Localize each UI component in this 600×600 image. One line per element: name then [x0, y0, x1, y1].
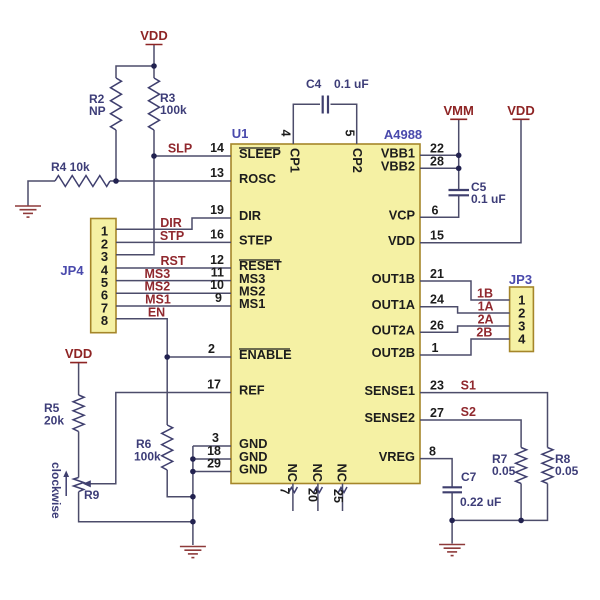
svg-text:NP: NP [89, 104, 106, 118]
svg-text:100k: 100k [134, 450, 161, 464]
wire ground to R4 [28, 181, 55, 206]
pin name ENABLE [239, 347, 292, 362]
power VDD right [507, 103, 534, 119]
svg-text:VDD: VDD [388, 233, 415, 248]
wire VREG pin 8 to C7 [420, 459, 452, 487]
svg-text:24: 24 [430, 293, 444, 307]
svg-text:8: 8 [101, 313, 108, 328]
wire GND pin 3 [193, 445, 231, 447]
wire MS2 net JP4 pin6 to pin 10 [116, 292, 231, 294]
wire MS1 net JP4 pin7 to pin 9 [116, 305, 231, 307]
svg-text:ROSC: ROSC [239, 171, 276, 186]
wire OUT2B pin 1 to JP3 pin4 [420, 339, 510, 355]
svg-text:8: 8 [429, 445, 436, 459]
svg-text:OUT2A: OUT2A [372, 323, 415, 338]
wire DIR net JP4 pin1 to pin 19 [116, 218, 231, 229]
wire VMM down through VBB to C5 [458, 119, 460, 189]
NC slash 25 [338, 487, 347, 493]
value label R6 100k [134, 437, 161, 464]
svg-text:VBB2: VBB2 [381, 159, 415, 174]
svg-text:1B: 1B [477, 287, 493, 301]
JP3 pin numbers 1-4 [518, 293, 526, 347]
svg-text:JP3: JP3 [509, 272, 532, 287]
wire R5 bottom to pot R9 [78, 432, 80, 478]
pin stub NC 25 [342, 484, 344, 512]
wire SENSE2 pin 27 to R7 [420, 420, 521, 448]
svg-text:21: 21 [430, 267, 444, 281]
svg-text:1A: 1A [478, 300, 494, 314]
capacitor C4 plates [322, 96, 324, 114]
svg-text:13: 13 [210, 166, 224, 180]
svg-text:27: 27 [430, 406, 444, 420]
wire R3 bottom to SLEEP row [153, 130, 155, 156]
IC U1 body [231, 144, 420, 484]
wire R8 bottom [452, 484, 547, 521]
node R6/gnd rail [190, 494, 196, 500]
wire ground rail vertical [192, 446, 194, 545]
JP4 pin numbers 1-8 [101, 224, 109, 329]
resistor R7 [516, 448, 527, 484]
svg-text:6: 6 [432, 203, 439, 217]
svg-text:S2: S2 [461, 405, 476, 419]
wire SLP vertical to JP4 pin 3 [116, 156, 154, 255]
node SLP [151, 153, 157, 159]
NC slash 7 [288, 487, 297, 493]
wire R7 bottom [520, 484, 522, 521]
NC slash 20 [313, 487, 322, 493]
svg-text:4: 4 [518, 332, 526, 347]
value label R8 0.05 [555, 452, 579, 478]
ground bottom-right [439, 545, 465, 556]
pin name RESET [239, 258, 282, 273]
svg-text:SENSE1: SENSE1 [364, 383, 415, 398]
svg-text:2: 2 [208, 342, 215, 356]
svg-text:CP1: CP1 [288, 148, 303, 173]
wire OUT2A pin 26 to JP3 pin3 [420, 326, 510, 332]
capacitor C5 plates [449, 189, 470, 191]
svg-text:C7: C7 [461, 470, 477, 484]
potentiometer R9 body [74, 478, 84, 492]
svg-text:VCP: VCP [389, 208, 416, 223]
svg-text:S1: S1 [461, 379, 476, 393]
svg-text:VDD: VDD [65, 346, 92, 361]
node VBB1 [456, 153, 462, 159]
node C7/gnd [449, 518, 455, 524]
svg-text:19: 19 [210, 203, 224, 217]
wire C5 bottom to VCP pin 6 [420, 196, 459, 218]
svg-text:EN: EN [148, 305, 165, 319]
value label R7 0.05 [492, 452, 516, 478]
power VMM [444, 103, 474, 119]
wire C4 to CP2 pin 5 [331, 104, 357, 144]
svg-text:4: 4 [279, 130, 293, 137]
wire OUT1A pin 24 to JP3 pin2 [420, 307, 510, 313]
wire R6 bottom to gnd rail [167, 470, 193, 497]
pin name SLEEP [239, 146, 281, 161]
node VDD/R2/R3 [151, 63, 157, 69]
connector JP3 body [510, 287, 534, 352]
svg-text:5: 5 [343, 130, 357, 137]
svg-text:R4 10k: R4 10k [51, 160, 90, 174]
svg-text:14: 14 [210, 141, 224, 155]
svg-text:2A: 2A [478, 313, 494, 327]
svg-text:NC: NC [285, 464, 300, 482]
value label R2 NP [89, 92, 106, 118]
wire CP1 pin 4 to C4 [293, 104, 320, 144]
svg-text:REF: REF [239, 383, 265, 398]
svg-text:RST: RST [161, 254, 186, 268]
svg-text:R9: R9 [84, 488, 100, 502]
svg-text:100k: 100k [160, 103, 187, 117]
svg-text:20: 20 [306, 488, 320, 502]
svg-text:SLP: SLP [168, 142, 192, 156]
svg-text:STEP: STEP [239, 233, 273, 248]
resistor R8 [542, 448, 553, 484]
svg-text:DIR: DIR [160, 216, 182, 230]
resistor R6 [162, 425, 173, 470]
svg-text:OUT2B: OUT2B [372, 345, 415, 360]
svg-text:JP4: JP4 [60, 263, 84, 278]
wire VBB2 pin 28 [420, 167, 459, 169]
wire SLEEP pin 14 [154, 155, 231, 157]
wire VDD left to R5 [78, 363, 80, 395]
svg-text:U1: U1 [232, 126, 249, 141]
svg-text:NC: NC [310, 464, 325, 482]
connector JP4 body [91, 219, 116, 333]
svg-text:NC: NC [335, 464, 350, 482]
wire C7 bottom to ground [451, 493, 453, 544]
svg-text:VREG: VREG [379, 449, 415, 464]
node R2/R4 [113, 178, 119, 184]
svg-text:OUT1A: OUT1A [372, 297, 415, 312]
potentiometer R9 wiper arrow [83, 480, 91, 487]
svg-text:OUT1B: OUT1B [372, 271, 415, 286]
svg-text:MS1: MS1 [239, 296, 265, 311]
value label C5 0.1 uF [471, 180, 506, 206]
value label R5 20k [44, 401, 64, 428]
svg-text:0.22 uF: 0.22 uF [460, 495, 501, 509]
svg-text:28: 28 [430, 154, 444, 168]
wire EN net JP4 pin8 down to ENABLE [116, 319, 167, 357]
wire ENABLE pin 2 [167, 356, 231, 358]
wire VBB1 pin 22 [420, 154, 459, 156]
node VBB2 [456, 166, 462, 172]
svg-text:15: 15 [430, 229, 444, 243]
svg-text:26: 26 [430, 318, 444, 332]
wire R4 to ROSC pin 13 [110, 180, 231, 182]
resistor R4 [55, 176, 110, 187]
wire OUT1B pin 21 to JP3 pin1 [420, 281, 510, 300]
svg-text:3: 3 [212, 431, 219, 445]
svg-text:CP2: CP2 [350, 148, 365, 173]
wire ENABLE junction down to R6 [166, 357, 168, 425]
wire VDD junction to R2 top [116, 66, 154, 78]
svg-text:20k: 20k [44, 414, 64, 428]
wire R2 bottom to ROSC row [115, 130, 117, 181]
svg-text:1: 1 [432, 341, 439, 355]
svg-text:16: 16 [210, 227, 224, 241]
svg-text:0.05: 0.05 [555, 464, 579, 478]
svg-text:clockwise: clockwise [49, 462, 63, 519]
ground left [15, 206, 41, 217]
svg-text:SENSE2: SENSE2 [364, 410, 415, 425]
wire REF pin 17 to pot wiper [90, 393, 231, 484]
resistor R3 [149, 78, 160, 130]
wire R9 bottom to gnd rail [79, 492, 193, 522]
node EN/ENABLE [164, 354, 170, 360]
node R7 bottom [518, 518, 524, 524]
svg-text:DIR: DIR [239, 208, 261, 223]
svg-text:2B: 2B [476, 326, 492, 340]
svg-text:GND: GND [239, 462, 267, 477]
value label C7 0.22 uF [460, 470, 501, 509]
svg-text:22: 22 [430, 141, 444, 155]
svg-text:C4: C4 [306, 77, 322, 91]
svg-text:0.05: 0.05 [492, 464, 516, 478]
svg-text:0.1 uF: 0.1 uF [334, 77, 369, 91]
svg-text:29: 29 [207, 457, 221, 471]
svg-text:VDD: VDD [140, 28, 167, 43]
wire MS3 net JP4 pin5 to pin 11 [116, 280, 231, 282]
svg-text:7: 7 [278, 488, 292, 495]
value label R3 100k [160, 91, 187, 117]
clockwise arrow [65, 475, 67, 496]
node R9/gnd rail [190, 519, 196, 525]
wire VDD pin 15 [420, 119, 521, 242]
svg-text:0.1 uF: 0.1 uF [471, 192, 506, 206]
node GND18 [190, 456, 196, 462]
pin stub NC 20 [317, 484, 319, 512]
wire SENSE1 pin 23 to R8 [420, 393, 548, 448]
wire GND pin 29 [193, 471, 231, 473]
power VDD top-left [140, 28, 167, 45]
ground bottom-middle [180, 547, 206, 558]
svg-text:9: 9 [215, 291, 222, 305]
svg-text:17: 17 [207, 378, 221, 392]
svg-text:23: 23 [430, 379, 444, 393]
node GND29 [190, 469, 196, 475]
svg-text:STP: STP [160, 229, 184, 243]
wire VDD top-left vertical [153, 45, 155, 79]
wire GND pin 18 [193, 458, 231, 460]
svg-text:A4988: A4988 [384, 127, 422, 142]
resistor R5 [73, 395, 84, 432]
svg-text:25: 25 [331, 489, 345, 503]
resistor R2 [111, 78, 122, 130]
wire STEP net JP4 pin2 to pin 16 [116, 241, 231, 243]
svg-text:VMM: VMM [444, 103, 474, 118]
pin stub NC 7 [292, 484, 294, 512]
power VDD left-middle [65, 346, 92, 363]
capacitor C7 plates [443, 486, 463, 488]
svg-text:VDD: VDD [507, 103, 534, 118]
wire RESET net JP4 pin4 to pin 12 [116, 267, 231, 269]
